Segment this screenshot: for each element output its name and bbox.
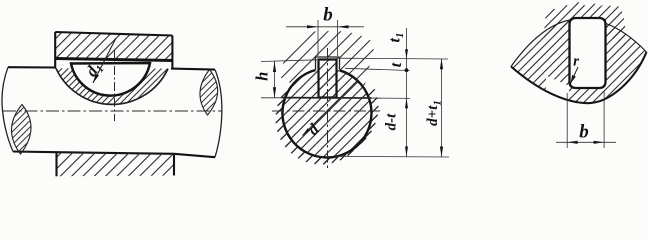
svg-text:t: t	[388, 62, 405, 67]
svg-text:b: b	[323, 5, 333, 26]
svg-text:h: h	[252, 72, 271, 81]
svg-text:d-t: d-t	[384, 113, 400, 130]
svg-text:b: b	[579, 122, 589, 143]
